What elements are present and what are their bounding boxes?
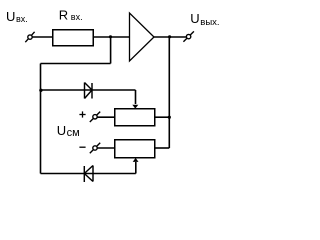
op-amp triangle	[130, 13, 155, 61]
node junction on left vertical	[39, 89, 42, 92]
plus sign	[79, 111, 85, 117]
diode VD1 (points right)	[85, 83, 93, 99]
wire resistor to amp	[94, 36, 130, 38]
label Rвх.	[59, 7, 83, 22]
arrowhead into R1 top	[132, 105, 138, 109]
wire amp to output terminal	[154, 36, 187, 38]
resistor R2 (lower controlled)	[115, 140, 155, 158]
wire input to resistor	[32, 36, 52, 38]
wire horizontal to left	[41, 63, 111, 65]
minus sign	[79, 146, 85, 148]
resistor R1 (upper controlled)	[115, 109, 155, 126]
label Uсм	[57, 123, 80, 139]
wire bottom horizontal through diode VD2	[41, 173, 136, 175]
wire minus terminal to R2	[97, 147, 114, 149]
wire output vertical down	[168, 37, 170, 148]
node junction after resistor	[109, 35, 112, 38]
terminal minus (circle with slash)	[90, 143, 100, 153]
label Uвх.	[6, 9, 28, 24]
terminal output (circle with slash)	[183, 31, 194, 41]
wire plus terminal to R1	[97, 116, 114, 118]
resistor Rвх	[53, 30, 94, 46]
wire left vertical down	[40, 64, 42, 174]
svg-text:вых.: вых.	[200, 17, 219, 28]
wire through diode VD1	[41, 89, 136, 91]
label Uвых.	[190, 11, 219, 28]
node output junction	[168, 35, 171, 38]
wire R1 right to node	[155, 116, 169, 118]
svg-text:R: R	[59, 7, 68, 22]
wire down from input junction	[110, 37, 112, 64]
svg-text:U: U	[190, 11, 199, 26]
arrowhead into R2 bottom	[133, 158, 139, 162]
wire to R2 right	[155, 147, 169, 149]
terminal plus (circle with slash)	[90, 112, 100, 122]
terminal input (circle with slash)	[25, 32, 34, 42]
wire up into R2 with arrow	[135, 162, 137, 174]
svg-text:вх.: вх.	[16, 14, 28, 24]
svg-text:вх.: вх.	[71, 12, 83, 22]
svg-text:U: U	[6, 9, 15, 24]
node junction R1/output	[168, 116, 171, 119]
svg-text:см: см	[67, 127, 80, 139]
wire down into R1 with arrow	[135, 90, 137, 104]
svg-text:U: U	[57, 123, 66, 138]
diode VD2 (points left)	[84, 166, 93, 183]
